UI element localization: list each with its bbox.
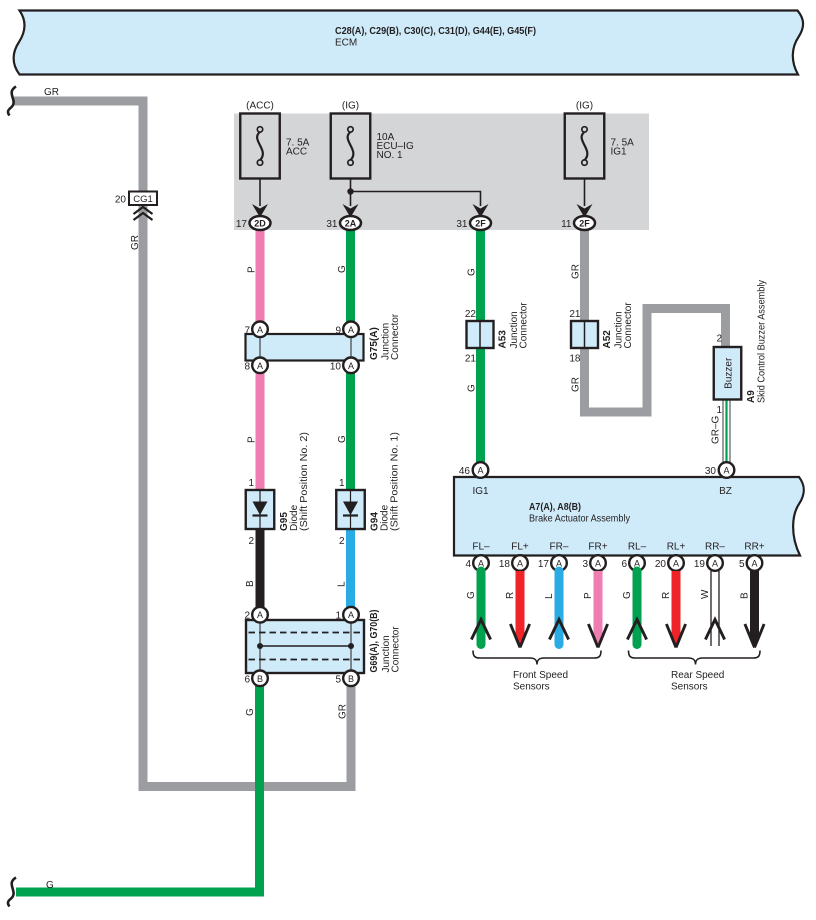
svg-text:1: 1 — [716, 405, 722, 416]
arrow into pin 2F — [577, 204, 593, 218]
wire: fuse ECU-IG to pin 2A and 2F — [351, 179, 481, 207]
svg-text:G: G — [337, 435, 348, 443]
svg-text:GR: GR — [571, 377, 582, 392]
connector CG1 (pin 20) — [129, 192, 157, 206]
arrowhead RR+ — [745, 624, 764, 648]
junction connector A52 — [571, 321, 598, 348]
break symbol top-left — [8, 87, 16, 116]
wire: fuse ACC to pin 2D — [259, 179, 261, 207]
fuse 10A ECU-IG NO.1 — [331, 114, 371, 179]
svg-text:RL+: RL+ — [667, 542, 686, 553]
svg-text:L: L — [544, 593, 555, 599]
shield chevrons below CG1 — [134, 207, 153, 220]
wire G: ECM 2F to brake actuator pin 46 — [476, 230, 485, 462]
svg-text:B: B — [257, 674, 263, 684]
brake actuator pin 30 BZ — [719, 462, 735, 478]
svg-text:2F: 2F — [579, 219, 590, 229]
ECM pin 17 2D — [250, 216, 271, 230]
svg-text:R: R — [661, 592, 672, 599]
svg-text:B: B — [740, 592, 751, 599]
ECM pin 31 2A — [340, 216, 361, 230]
svg-text:A52: A52 — [602, 330, 613, 349]
ECM pin 31 2F — [470, 216, 491, 230]
svg-text:A: A — [348, 610, 354, 620]
svg-text:20: 20 — [115, 195, 127, 206]
wire L speed sensor — [555, 571, 564, 645]
svg-text:4: 4 — [465, 559, 471, 570]
svg-text:RR+: RR+ — [744, 542, 764, 553]
svg-text:1: 1 — [335, 611, 341, 622]
svg-text:G75(A): G75(A) — [369, 327, 380, 360]
svg-text:2: 2 — [248, 536, 254, 547]
svg-text:A: A — [517, 559, 523, 569]
svg-text:7: 7 — [244, 326, 250, 337]
svg-text:18: 18 — [569, 354, 581, 365]
fuse block shaded area — [234, 114, 649, 231]
svg-text:GR–G: GR–G — [711, 415, 722, 444]
arrowhead RL+ — [666, 624, 685, 648]
svg-text:(Shift Position No. 1): (Shift Position No. 1) — [390, 432, 401, 531]
svg-text:1: 1 — [339, 478, 345, 489]
svg-text:W: W — [700, 589, 711, 599]
G75 pin 8 — [252, 358, 268, 374]
svg-text:A7(A), A8(B): A7(A), A8(B) — [529, 502, 581, 513]
svg-text:(ACC): (ACC) — [246, 101, 274, 112]
svg-text:G: G — [337, 265, 348, 273]
svg-text:ACC: ACC — [286, 147, 307, 158]
svg-text:G: G — [622, 591, 633, 599]
svg-text:NO. 1: NO. 1 — [377, 150, 404, 161]
wire R speed sensor — [516, 571, 525, 639]
svg-text:R: R — [505, 592, 516, 599]
svg-text:Skid Control Buzzer Assembly: Skid Control Buzzer Assembly — [757, 280, 768, 403]
wire G: ECM 2A to diode G94 — [346, 230, 355, 490]
svg-text:(IG): (IG) — [342, 101, 359, 112]
break symbol bottom-left — [8, 878, 16, 907]
svg-text:2: 2 — [339, 536, 345, 547]
wire R speed sensor — [672, 571, 681, 639]
svg-text:A: A — [595, 559, 601, 569]
svg-text:FL–: FL– — [472, 542, 490, 553]
svg-text:FR–: FR– — [550, 542, 569, 553]
fuse 7.5A IG1 — [565, 114, 605, 179]
wire W speed sensor — [711, 571, 719, 646]
chevron arrow FR– — [549, 620, 568, 640]
svg-text:22: 22 — [465, 309, 477, 320]
junction connector G75(A) — [246, 334, 364, 361]
svg-text:31: 31 — [326, 219, 338, 230]
svg-text:2: 2 — [716, 334, 722, 345]
junction connector G69(A), G70(B) — [246, 620, 364, 673]
wire GR: ECM top-left to junction connector G69/G70 pin 5 — [14, 101, 351, 787]
wire L: diode G94 to G69 pin 1 — [346, 529, 355, 607]
buzzer A9 Skid Control Buzzer Assembly — [714, 347, 742, 400]
brake actuator assembly A7(A), A8(B) — [454, 477, 804, 556]
svg-text:2A: 2A — [345, 219, 357, 229]
svg-text:P: P — [247, 266, 258, 273]
arrowhead FR+ — [588, 624, 607, 648]
svg-text:FR+: FR+ — [588, 542, 607, 553]
junction connector A53 — [467, 321, 494, 348]
svg-text:10: 10 — [330, 362, 342, 373]
svg-text:GR: GR — [44, 87, 59, 98]
svg-text:9: 9 — [335, 326, 341, 337]
svg-text:G: G — [46, 880, 54, 891]
ECM pin 11 2F — [574, 216, 595, 230]
svg-text:6: 6 — [244, 675, 250, 686]
arrow into pin 2A — [343, 204, 359, 218]
svg-text:RR–: RR– — [705, 542, 725, 553]
svg-text:Front Speed: Front Speed — [513, 670, 568, 681]
svg-text:21: 21 — [569, 309, 581, 320]
svg-text:A: A — [257, 361, 263, 371]
svg-text:Sensors: Sensors — [513, 682, 550, 693]
svg-text:L: L — [337, 581, 348, 587]
wire G speed sensor — [477, 571, 486, 645]
wire G: G69 pin 6 to bottom-left — [16, 686, 260, 892]
svg-text:2: 2 — [244, 611, 250, 622]
svg-text:A9: A9 — [746, 390, 757, 403]
svg-text:8: 8 — [244, 362, 250, 373]
G75 pin 7 — [252, 322, 268, 338]
svg-text:G: G — [245, 708, 256, 716]
svg-text:A: A — [257, 325, 263, 335]
arrow into pin 2D — [252, 204, 268, 218]
G75 pin 10 — [343, 358, 359, 374]
wire P speed sensor — [594, 571, 603, 639]
svg-text:C28(A), C29(B), C30(C), C31(D): C28(A), C29(B), C30(C), C31(D), G44(E), … — [335, 26, 536, 37]
chevron arrow FL– — [471, 620, 490, 640]
svg-text:ECM: ECM — [335, 38, 357, 49]
svg-text:A: A — [723, 466, 729, 476]
svg-text:A: A — [673, 559, 679, 569]
svg-text:19: 19 — [694, 559, 706, 570]
wire B: diode G95 to G69 pin 2 — [256, 529, 265, 607]
arrowhead FL+ — [510, 624, 529, 648]
svg-text:(Shift Position No. 2): (Shift Position No. 2) — [299, 432, 310, 531]
svg-text:GR: GR — [571, 264, 582, 279]
svg-text:A53: A53 — [498, 330, 509, 349]
svg-text:B: B — [348, 674, 354, 684]
brace rear speed sensors — [629, 651, 761, 665]
wire P: ECM 2D to diode G95 — [256, 230, 265, 490]
brake actuator pin 46 IG1 — [473, 462, 489, 478]
wire: fuse IG1 to pin 2F — [584, 179, 586, 207]
svg-text:6: 6 — [621, 559, 627, 570]
svg-text:30: 30 — [705, 466, 717, 477]
wire GR-G: buzzer to brake actuator pin 30 — [722, 399, 724, 463]
chevron arrow RL– — [627, 620, 646, 640]
svg-text:Connector: Connector — [623, 302, 634, 349]
svg-text:Connector: Connector — [390, 313, 401, 360]
svg-text:IG1: IG1 — [472, 486, 489, 497]
svg-text:G: G — [466, 591, 477, 599]
svg-text:A: A — [751, 559, 757, 569]
svg-text:GR: GR — [338, 704, 349, 719]
G75 pin 9 — [343, 322, 359, 338]
svg-text:P: P — [583, 592, 594, 599]
svg-text:Brake Actuator Assembly: Brake Actuator Assembly — [529, 514, 630, 525]
svg-text:17: 17 — [538, 559, 550, 570]
G69/G70 pin 1 — [343, 607, 359, 623]
svg-text:RL–: RL– — [628, 542, 647, 553]
svg-text:G: G — [467, 268, 478, 276]
svg-text:5: 5 — [739, 559, 745, 570]
svg-text:31: 31 — [456, 219, 468, 230]
svg-text:Rear Speed: Rear Speed — [671, 670, 724, 681]
svg-text:17: 17 — [236, 219, 248, 230]
svg-text:A: A — [477, 466, 483, 476]
diode G95 (Shift Position No. 2) — [246, 490, 275, 529]
svg-text:GR: GR — [130, 235, 141, 250]
svg-text:Buzzer: Buzzer — [724, 357, 735, 389]
ECM connector banner C28-G45 — [14, 11, 803, 75]
svg-text:A: A — [257, 610, 263, 620]
G69/G70 pin 6 — [252, 671, 268, 687]
wire G speed sensor — [633, 571, 642, 645]
svg-text:20: 20 — [655, 559, 667, 570]
wire GR: A52 to buzzer A9 — [585, 230, 726, 412]
svg-text:A: A — [348, 325, 354, 335]
diode G94 (Shift Position No. 1) — [336, 490, 365, 529]
svg-text:A: A — [348, 361, 354, 371]
svg-text:Sensors: Sensors — [671, 682, 708, 693]
svg-text:G: G — [467, 384, 478, 392]
wire B speed sensor — [750, 571, 759, 639]
chevron arrow RR– — [705, 620, 724, 640]
svg-text:Connector: Connector — [519, 302, 530, 349]
svg-text:P: P — [247, 436, 258, 443]
brace front speed sensors — [473, 651, 601, 665]
svg-text:BZ: BZ — [719, 486, 732, 497]
svg-text:21: 21 — [465, 354, 477, 365]
svg-text:2F: 2F — [475, 219, 486, 229]
svg-text:CG1: CG1 — [133, 194, 153, 205]
svg-text:IG1: IG1 — [611, 147, 628, 158]
svg-text:G69(A), G70(B): G69(A), G70(B) — [369, 610, 380, 673]
svg-text:11: 11 — [561, 219, 572, 230]
svg-text:B: B — [245, 580, 256, 587]
svg-text:A: A — [712, 559, 718, 569]
svg-text:3: 3 — [582, 559, 588, 570]
G69/G70 pin 2 — [252, 607, 268, 623]
svg-text:1: 1 — [248, 478, 254, 489]
svg-text:46: 46 — [459, 466, 471, 477]
G69/G70 pin 5 — [343, 671, 359, 687]
svg-text:FL+: FL+ — [511, 542, 529, 553]
fuse 7.5A ACC — [240, 114, 280, 179]
arrow into pin 2F — [473, 204, 489, 218]
svg-text:5: 5 — [335, 675, 341, 686]
junction dot — [347, 188, 353, 194]
svg-text:2D: 2D — [254, 219, 266, 229]
svg-text:18: 18 — [499, 559, 511, 570]
svg-text:(IG): (IG) — [576, 101, 593, 112]
svg-text:Connector: Connector — [391, 626, 402, 673]
